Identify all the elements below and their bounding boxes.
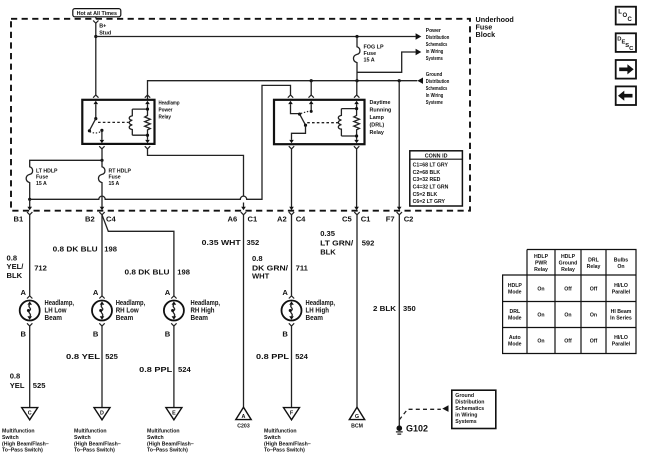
svg-text:B: B [165,329,171,338]
svg-text:On: On [537,287,544,293]
label LT HDLP Fuse 15 A [36,168,58,187]
label 0.8 YEL/BLK [7,253,25,279]
svg-text:525: 525 [105,352,118,361]
svg-text:Power: Power [159,107,174,113]
svg-text:Ground: Ground [426,72,443,78]
label 0.35 LT GRN/BLK [320,229,354,256]
svg-text:HI/LO: HI/LO [614,335,628,341]
svg-text:524: 524 [295,352,308,361]
svg-text:On: On [590,313,597,319]
svg-text:A2: A2 [277,214,287,223]
svg-text:YEL/: YEL/ [7,262,25,271]
fuse LT HDLP 15A with feed wire [26,149,103,201]
svg-text:Hot at All Times: Hot at All Times [77,11,117,17]
lamp E4 Headlamp LH High Beam [282,288,302,338]
relay K2 pin switch common (top left) [288,101,301,116]
svg-text:Systems: Systems [455,419,476,425]
svg-text:BLK: BLK [320,248,336,257]
svg-text:C1: C1 [361,214,371,223]
svg-text:On: On [537,313,544,319]
svg-text:B1: B1 [14,214,24,223]
svg-text:Multifunction: Multifunction [2,429,35,435]
connector chevrons below border [27,212,402,215]
wire dashed reference to ground distribution [399,405,448,420]
wire circuit 350 BLK from F7 to G102 [398,215,400,426]
svg-text:Block: Block [476,30,496,39]
svg-text:LT HDLP: LT HDLP [36,168,58,174]
svg-text:C5: C5 [342,214,352,223]
wire circuit 198 DK BLU from B2 to headlamp RH low [101,215,103,296]
label multifunction switch (F) [264,429,311,454]
svg-text:G: G [355,414,359,420]
svg-text:BCM: BCM [351,423,363,429]
svg-text:Multifunction: Multifunction [74,429,107,435]
svg-text:CONN ID: CONN ID [425,153,448,159]
svg-text:0.8 YEL: 0.8 YEL [66,352,100,361]
svg-text:15 A: 15 A [36,181,47,187]
wire relay K1 coil low side to multifunction switch (A6/C1) [148,149,246,210]
svg-text:On: On [537,339,544,345]
svg-text:525: 525 [33,381,46,390]
wire B+ feed to Power Distribution [96,33,422,39]
label Headlamp Power Relay [159,100,181,120]
svg-text:Relay: Relay [370,130,384,136]
svg-text:B: B [21,329,27,338]
svg-text:Schematics: Schematics [426,42,448,48]
wire lamp E3 return circuit 524 PPL [173,326,175,407]
relay K1 coil pins top/bottom [145,95,150,149]
label multifunction switch (C) [2,429,49,454]
wire DRL coil low side to C5 crossing [354,149,359,210]
connector row labels at fuse block bottom [14,214,414,223]
wire circuit 712 YEL/BLK from B1 to headlamp LH low [29,215,31,296]
label Power Distribution Schematics in Wiring Systems [426,28,450,62]
svg-text:F7: F7 [386,214,395,223]
svg-text:B2: B2 [85,214,95,223]
icon DESC button [616,33,636,52]
svg-text:B: B [93,329,99,338]
svg-text:C: C [628,17,633,23]
relay K1 coil (inductor and resistor in parallel) [129,104,150,140]
svg-text:C1: C1 [248,214,258,223]
icon forward arrow button [616,60,636,79]
svg-text:C2: C2 [404,214,414,223]
wire circuit 711 DK GRN/WHT from A2 to headlamp LH high [291,215,293,296]
svg-text:Parallel: Parallel [612,342,631,348]
relay K2 switch output to bottom pin [289,125,306,149]
svg-text:A: A [242,414,246,420]
svg-text:Headlamp: Headlamp [159,100,181,106]
relay K2 NC contact pin (top middle) [301,81,314,114]
svg-text:0.8 PPL: 0.8 PPL [139,365,172,374]
fuse FOG LP 15A [353,35,359,81]
connector E triangle to multifunction switch [166,408,182,420]
ground G102 [396,424,428,435]
svg-text:Distribution: Distribution [426,79,450,85]
svg-text:0.8 DK BLU: 0.8 DK BLU [53,245,99,254]
svg-text:PWR: PWR [535,261,547,267]
svg-text:Distribution: Distribution [426,35,450,41]
wire circuit 352 WHT from A6 to C203 [243,215,245,407]
svg-text:D: D [100,410,104,416]
wire circuit 198 branch to headlamp RH high [102,215,174,296]
svg-text:Multifunction: Multifunction [264,429,297,435]
svg-text:C3=32 RED: C3=32 RED [413,177,441,183]
svg-text:Switch: Switch [147,435,164,441]
svg-text:711: 711 [296,263,309,272]
svg-text:A: A [21,288,27,297]
connector F triangle to multifunction switch [284,408,300,420]
svg-text:Off: Off [590,287,598,293]
svg-text:DRL: DRL [509,309,520,315]
svg-text:B: B [282,329,288,338]
svg-text:Stud: Stud [99,30,111,36]
svg-text:RT HDLP: RT HDLP [109,168,132,174]
wire circuit 592 LT GRN/BLK from C5 to BCM [356,215,358,407]
svg-text:Ground: Ground [559,261,578,267]
svg-text:HDLP: HDLP [534,254,549,260]
svg-text:C203: C203 [237,423,250,429]
svg-text:0.8: 0.8 [7,253,18,262]
table relay modes [503,250,636,354]
svg-text:Fuse: Fuse [36,175,48,181]
svg-text:Mode: Mode [508,342,522,348]
svg-text:Beam: Beam [45,313,63,322]
relay K1 switch blade [88,119,104,133]
connector D triangle to multifunction switch [94,408,110,420]
svg-text:712: 712 [34,264,47,273]
svg-text:To–Pass Switch): To–Pass Switch) [264,448,305,454]
svg-text:Running: Running [370,108,392,114]
svg-text:(High Beam/Flash–: (High Beam/Flash– [2,441,49,447]
wire ground distribution junction down to F7 crossing [397,81,402,211]
label Headlamp, RH Low Beam [116,298,146,322]
icon back arrow button [616,86,636,105]
svg-text:Mode: Mode [508,290,522,296]
svg-text:198: 198 [177,267,190,276]
svg-text:Relay: Relay [159,114,172,120]
underhood fuse block dashed border [11,19,470,211]
wire lamp E4 return circuit 524 PPL [291,326,293,407]
svg-text:0.35 WHT: 0.35 WHT [202,238,241,247]
svg-text:C6=2 LT GRY: C6=2 LT GRY [413,199,446,205]
table CONN ID [410,151,463,206]
svg-text:C4: C4 [106,214,116,223]
svg-text:Auto: Auto [509,335,521,341]
svg-text:On: On [564,313,571,319]
node Hot at All Times [73,9,121,17]
label Headlamp, LH High Beam [306,298,336,322]
svg-text:Off: Off [564,339,572,345]
svg-text:Parallel: Parallel [612,290,631,296]
svg-text:Multifunction: Multifunction [147,429,180,435]
connector C triangle to multifunction switch [22,408,38,420]
svg-text:Daytime: Daytime [370,100,391,106]
svg-text:C: C [28,410,32,416]
svg-text:Schematics: Schematics [455,406,484,412]
svg-text:0.8: 0.8 [10,371,21,380]
svg-text:A: A [165,288,171,297]
svg-text:15 A: 15 A [364,58,375,64]
label Daytime Running Lamp (DRL) Relay [370,100,392,136]
svg-text:Off: Off [590,339,598,345]
svg-text:Bulbs: Bulbs [614,257,629,263]
relay K2 switch blade [300,114,308,127]
wire FOG fuse output to Power Distribution [357,49,421,73]
svg-text:Switch: Switch [264,435,281,441]
svg-text:C5=2 BLK: C5=2 BLK [413,192,438,198]
svg-text:Beam: Beam [306,313,324,322]
svg-text:On: On [617,264,624,270]
svg-text:DRL: DRL [588,257,599,263]
svg-text:To–Pass Switch): To–Pass Switch) [74,448,115,454]
wire lamp E1 return circuit 525 YEL [29,326,31,407]
svg-text:in Wiring: in Wiring [426,49,444,55]
label Ground Distribution Schematics in Wiring Systems box [452,390,496,428]
node B+ Stud label [99,23,111,36]
svg-text:Systems: Systems [426,56,443,62]
svg-text:G102: G102 [406,424,428,434]
svg-text:C4: C4 [296,214,306,223]
svg-text:HI/LO: HI/LO [614,283,628,289]
connector A triangle C203 [236,407,251,429]
svg-text:Distribution: Distribution [455,400,484,406]
svg-text:Off: Off [564,287,572,293]
lamp E3 Headlamp RH High Beam [164,288,184,338]
svg-text:15 A: 15 A [109,181,120,187]
wire B+ stud from Hot at All Times through fuse block border [93,17,98,98]
svg-text:Fuse: Fuse [364,51,377,57]
svg-text:FOG LP: FOG LP [364,45,384,51]
svg-text:A6: A6 [228,214,238,223]
relay K1 coil control dashed link [98,121,129,123]
lamp E2 Headlamp RH Low Beam [92,288,112,338]
svg-text:in Wiring: in Wiring [455,413,477,419]
svg-text:Relay: Relay [561,267,575,273]
svg-text:2 BLK: 2 BLK [373,304,397,313]
svg-text:C1=68 LT GRY: C1=68 LT GRY [413,163,449,169]
svg-text:A: A [282,288,288,297]
svg-text:HDLP: HDLP [561,254,576,260]
label Headlamp, LH Low Beam [45,298,75,322]
relay K1 Headlamp Power Relay box [82,100,154,144]
svg-text:HDLP: HDLP [508,283,523,289]
svg-text:Switch: Switch [74,435,91,441]
svg-text:592: 592 [362,238,375,247]
svg-text:In Wiring: In Wiring [426,93,444,99]
svg-text:(High Beam/Flash–: (High Beam/Flash– [74,441,121,447]
wire LT fuse output to B1 and to DRL relay (hops over RT and A6 wires) [27,85,293,210]
label Headlamp, RH High Beam [191,298,221,322]
svg-text:Power: Power [426,28,442,34]
label RT HDLP Fuse 15 A [109,168,132,187]
wire DRL feed bus to Ground Distribution [148,78,424,101]
svg-text:352: 352 [247,238,260,247]
connector G triangle BCM [349,407,364,429]
svg-text:0.35: 0.35 [320,229,336,238]
label 0.8 DK GRN/WHT [252,254,289,281]
svg-text:C4=32 LT GRN: C4=32 LT GRN [413,185,449,191]
svg-text:198: 198 [104,245,117,254]
wire DRL switch output to A2 crossing [289,149,294,210]
relay K2 coil control dashed link [307,122,339,124]
label multifunction switch (D) [74,429,121,454]
svg-text:0.8: 0.8 [252,254,263,263]
svg-text:0.8 DK BLU: 0.8 DK BLU [125,267,171,276]
svg-text:Mode: Mode [508,316,522,322]
relay K1 pin 30 (switch common, top) [94,101,99,121]
svg-text:C2=68 BLK: C2=68 BLK [413,170,441,176]
svg-text:Relay: Relay [534,267,548,273]
label Ground Distribution Schematics In Wiring Systeme [426,72,450,106]
svg-text:(High Beam/Flash–: (High Beam/Flash– [147,441,194,447]
svg-text:B+: B+ [99,23,106,29]
relay K2 coil (inductor and resistor in parallel) [338,104,359,140]
svg-text:WHT: WHT [252,272,270,281]
svg-text:Systeme: Systeme [426,100,443,106]
label Underhood Fuse Block [476,15,514,39]
svg-text:BLK: BLK [7,271,23,280]
lamp E1 Headlamp LH Low Beam [20,288,40,338]
svg-text:To–Pass Switch): To–Pass Switch) [147,448,188,454]
relay K1 switch output pin (bottom) [99,130,104,149]
wire lamp E2 return circuit 525 YEL [101,326,103,407]
svg-text:350: 350 [403,304,416,313]
svg-text:To–Pass Switch): To–Pass Switch) [2,448,43,454]
svg-text:Lamp: Lamp [370,115,385,121]
svg-text:Ground: Ground [455,393,474,399]
svg-text:Schematics: Schematics [426,86,448,92]
svg-text:HI Beam: HI Beam [611,309,632,315]
label multifunction switch (E) [147,429,194,454]
label FOG LP Fuse 15 A [364,45,384,64]
svg-text:Fuse: Fuse [109,175,121,181]
svg-text:In Series: In Series [610,316,632,322]
svg-text:Relay: Relay [587,264,601,270]
fuse RT HDLP 15A [98,160,104,210]
relay K2 coil pins top/bottom [354,81,360,149]
relay K2 Daytime Running Lamp (DRL) Relay box [274,100,365,144]
svg-text:(DRL): (DRL) [370,123,385,129]
svg-text:Switch: Switch [2,435,19,441]
svg-text:524: 524 [178,365,191,374]
svg-text:0.8 PPL: 0.8 PPL [256,352,289,361]
svg-text:E: E [172,410,176,416]
svg-text:LT GRN/: LT GRN/ [320,238,354,247]
svg-text:Beam: Beam [116,313,134,322]
label 0.8 YEL (lamp1) [10,371,25,390]
icon LOC button [616,7,636,25]
svg-text:YEL: YEL [10,381,25,390]
svg-text:(High Beam/Flash–: (High Beam/Flash– [264,441,311,447]
svg-text:Beam: Beam [191,313,209,322]
svg-text:A: A [93,288,99,297]
